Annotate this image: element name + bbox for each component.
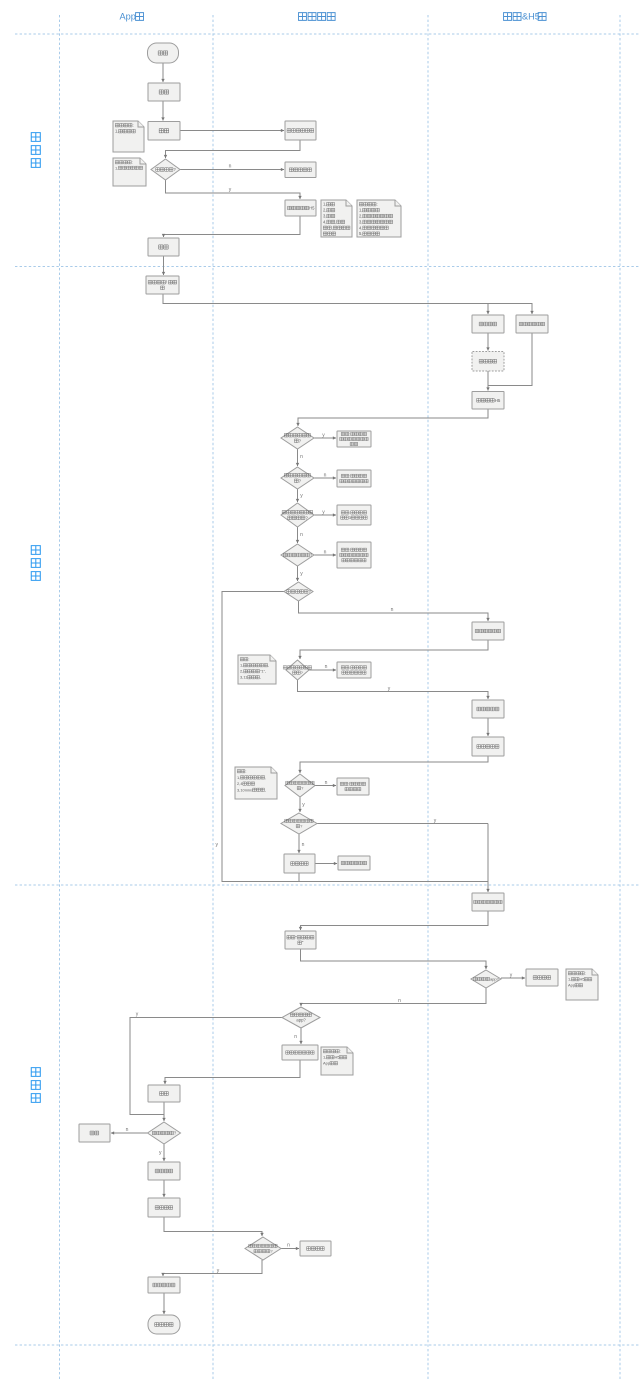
svg-text::: : [376,202,377,207]
svg-text::: : [349,547,350,552]
svg-text:n: n [324,550,327,556]
svg-text::: : [132,123,133,128]
svg-text:5,: 5, [359,231,363,236]
svg-text:,: , [265,787,266,792]
svg-text:H5: H5 [309,206,315,211]
svg-text:H5: H5 [495,398,501,403]
svg-text:1,: 1, [115,129,119,134]
svg-text:App: App [119,12,135,22]
svg-text:n: n [302,842,305,848]
svg-text:,: , [268,663,269,668]
svg-text:,: , [332,225,333,230]
svg-text:2,4: 2,4 [237,781,243,786]
svg-text::: : [340,1049,341,1054]
svg-text:app?: app? [296,1018,306,1023]
svg-text:1,: 1, [323,202,327,207]
svg-text:n: n [398,998,401,1004]
svg-text::: : [349,473,350,478]
svg-text:n: n [325,664,328,670]
svg-text:n: n [294,1034,297,1040]
svg-text:1,: 1, [237,775,240,780]
svg-text:1,: 1, [359,208,363,213]
svg-text:1,: 1, [115,165,118,170]
svg-text::: : [132,160,133,165]
svg-text::: : [248,657,249,662]
svg-text::: : [349,665,350,670]
svg-text:1,: 1, [323,1055,326,1060]
svg-text:n: n [126,1127,129,1133]
svg-text::: : [348,781,349,786]
svg-text:n: n [300,532,303,538]
svg-text:3,: 3, [359,219,363,224]
svg-text:2,: 2, [323,208,327,213]
svg-text:4,: 4, [359,225,363,230]
svg-text:n: n [300,454,303,460]
svg-text:,: , [265,775,266,780]
svg-text:&H5: &H5 [522,12,540,22]
svg-text:n: n [287,1243,290,1249]
svg-text:n: n [324,473,327,479]
svg-text:"1",: "1", [260,669,266,674]
svg-text:,: , [260,675,261,680]
svg-text::: : [585,971,586,976]
svg-text:2,: 2, [359,214,363,219]
svg-text:App: App [568,983,576,988]
svg-text::: : [349,432,350,437]
svg-text::: : [245,769,246,774]
svg-text:4,: 4, [323,219,327,224]
svg-text:n: n [391,607,394,613]
svg-text:1,: 1, [240,663,243,668]
svg-text:App: App [323,1061,331,1066]
svg-text:3,: 3, [323,214,327,219]
svg-text:2,: 2, [240,669,243,674]
svg-text:,: , [335,219,336,224]
svg-text:3,11: 3,11 [240,675,248,680]
svg-text:n: n [325,780,328,786]
svg-text:app?: app? [490,977,500,982]
svg-text:1,: 1, [568,977,571,982]
svg-text:3,10mins: 3,10mins [237,787,253,792]
svg-text:n: n [229,164,232,170]
